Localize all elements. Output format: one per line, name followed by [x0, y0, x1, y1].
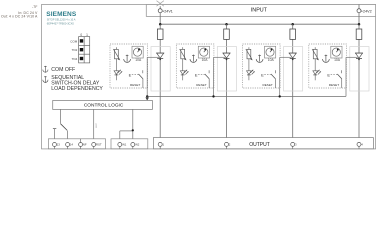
latching hook symbol ch1	[124, 55, 131, 63]
wire gate ch4	[342, 57, 358, 96]
svg-text:10A: 10A	[268, 58, 275, 62]
wire input bus +24V	[160, 13, 359, 25]
junction input bus ch1	[159, 23, 162, 26]
wire breaker/LED branch ch2	[182, 47, 184, 80]
OUTPUT terminal box	[153, 138, 373, 149]
svg-text:RESET: RESET	[196, 83, 206, 87]
svg-text:E: E	[327, 72, 330, 77]
svg-text:RESET: RESET	[329, 83, 339, 87]
latching hook symbol ch3	[256, 55, 263, 63]
DIP switch block	[70, 33, 89, 63]
junction control bus ch1	[146, 95, 148, 97]
switch module outline ch4	[350, 47, 369, 91]
anchor symbol COM OFF	[43, 66, 48, 73]
svg-text:TD2: TD2	[72, 48, 78, 52]
svg-text:RESET: RESET	[130, 83, 140, 87]
thyristor V3	[289, 53, 297, 60]
terminal 14	[66, 143, 74, 149]
svg-text:TD4: TD4	[72, 57, 78, 61]
wire gate ch1	[143, 57, 159, 96]
svg-text:SIEMENS: SIEMENS	[46, 11, 77, 18]
terminal IN2	[131, 143, 140, 149]
current setting potentiometer ch2 10A	[198, 46, 209, 62]
control box ch3 (dashed)	[243, 44, 281, 88]
thyristor V1	[156, 53, 164, 60]
terminal RST	[92, 143, 102, 149]
terminal +24V2	[357, 5, 372, 14]
LED indicator ch3	[247, 70, 255, 75]
svg-text:RESET: RESET	[263, 83, 273, 87]
wire IN1	[120, 131, 133, 143]
control box ch4 (dashed)	[309, 44, 347, 88]
wire gate ch2	[209, 57, 225, 96]
terminal output 3	[291, 142, 297, 148]
electronic trip element ch3	[246, 49, 253, 60]
latching hook symbol ch2	[190, 55, 197, 63]
fuse F4	[356, 29, 362, 39]
electronic trip element ch4	[312, 49, 319, 60]
terminal strip IN1 IN2	[111, 139, 148, 149]
svg-text:10A: 10A	[334, 58, 341, 62]
current setting potentiometer ch4 10A	[331, 46, 342, 62]
wire control bus	[147, 95, 346, 97]
control logic box	[53, 101, 153, 110]
wire breaker/LED branch ch3	[248, 47, 250, 80]
svg-text:13: 13	[57, 143, 61, 147]
svg-text:NF: NF	[83, 143, 87, 147]
svg-text:LOAD DEPENDENCY: LOAD DEPENDENCY	[51, 86, 103, 92]
svg-text:+24V1: +24V1	[162, 10, 173, 14]
junction IN wires	[132, 129, 134, 131]
fuse F2	[224, 29, 230, 39]
svg-text:14: 14	[70, 143, 74, 147]
switch module outline ch3	[284, 47, 303, 91]
current setting potentiometer ch1 10A	[132, 46, 143, 62]
svg-text:E: E	[195, 72, 198, 77]
wire control bus to logic (arrow)	[145, 96, 149, 100]
thyristor V2	[223, 53, 231, 60]
wire channel 3 main vertical	[292, 24, 294, 142]
fuse F3	[290, 29, 296, 39]
svg-text:CONTROL LOGIC: CONTROL LOGIC	[84, 102, 124, 108]
anchor symbol sequential	[43, 76, 48, 83]
terminal NF	[79, 139, 87, 149]
svg-text:+24V2: +24V2	[361, 10, 372, 14]
LED indicator ch1	[114, 70, 122, 75]
svg-text:IN2: IN2	[135, 143, 140, 147]
LED indicator ch4	[313, 70, 321, 75]
INPUT terminal box	[146, 5, 375, 17]
wire channel 4 main vertical	[358, 24, 360, 142]
wire logic to contact	[60, 109, 62, 123]
relay contact 13/14	[53, 124, 68, 143]
svg-text:10A: 10A	[202, 58, 209, 62]
junction input bus ch2	[225, 23, 228, 26]
terminal output 1	[158, 142, 164, 148]
latching hook symbol ch4	[323, 55, 330, 63]
svg-text:SITOP SEL1200 4 x 10 A: SITOP SEL1200 4 x 10 A	[47, 17, 76, 21]
svg-text:E: E	[261, 72, 264, 77]
current setting potentiometer ch3 10A	[265, 46, 276, 62]
svg-text:Out: 4 x DC 24 V/10 A: Out: 4 x DC 24 V/10 A	[1, 14, 38, 18]
terminal output 4	[357, 142, 363, 148]
switch module outline ch2	[217, 47, 236, 91]
svg-text:RST: RST	[96, 143, 102, 147]
svg-text:-7F: -7F	[32, 5, 38, 9]
terminal output 2	[225, 142, 231, 148]
terminal strip 13 14 NF RST	[48, 139, 105, 149]
switch module outline ch1	[151, 47, 170, 91]
svg-text:0: 0	[80, 33, 82, 37]
wire breaker/LED branch ch1	[115, 47, 117, 80]
thyristor V4	[355, 53, 363, 60]
svg-text:E: E	[129, 72, 132, 77]
junction input bus ch4	[358, 23, 361, 26]
electronic trip element ch1	[113, 49, 120, 60]
wire channel 2 main vertical	[226, 24, 228, 142]
terminal 13	[53, 143, 61, 149]
control box ch2 (dashed)	[176, 44, 214, 88]
LED indicator ch2	[180, 70, 188, 75]
reset pushbutton ch4	[327, 70, 341, 87]
junction control bus ch3	[279, 95, 281, 97]
device enclosure border	[42, 5, 376, 149]
svg-text:RST: RST	[96, 122, 98, 127]
svg-text:OUTPUT: OUTPUT	[249, 142, 270, 148]
wire gate ch3	[275, 57, 291, 96]
svg-text:INPUT: INPUT	[251, 8, 268, 14]
svg-text:1: 1	[86, 33, 88, 37]
wire breaker/LED branch ch4	[314, 47, 316, 80]
wire IN2	[132, 109, 134, 142]
svg-text:10A: 10A	[135, 58, 142, 62]
control box ch1 (dashed)	[110, 44, 148, 88]
fuse F1	[157, 29, 163, 39]
reset pushbutton ch3	[261, 70, 275, 87]
junction input bus ch3	[291, 23, 294, 26]
wire channel 1 main vertical	[159, 24, 161, 142]
reset pushbutton ch1	[129, 70, 143, 87]
wire RST	[94, 109, 98, 142]
svg-text:COM OFF: COM OFF	[51, 67, 75, 73]
electronic trip element ch2	[180, 49, 187, 60]
junction control bus ch2	[212, 95, 214, 97]
reset pushbutton ch2	[195, 70, 209, 87]
terminal IN1	[118, 143, 127, 149]
svg-text:IN1: IN1	[122, 143, 127, 147]
terminal +24V1	[157, 1, 173, 14]
svg-text:COM: COM	[70, 39, 78, 43]
svg-text:6EP4437-7FB00-3CX0: 6EP4437-7FB00-3CX0	[47, 21, 75, 25]
